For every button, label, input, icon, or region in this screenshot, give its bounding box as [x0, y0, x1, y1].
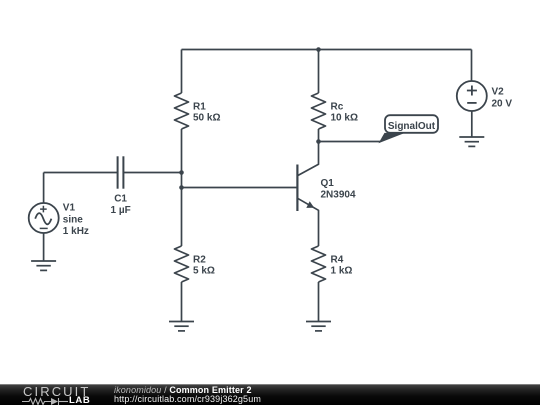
node collector junction — [316, 139, 321, 144]
svg-text:1 µF: 1 µF — [110, 205, 130, 216]
svg-text:20 V: 20 V — [492, 98, 513, 109]
wire C1 right plate to base column — [123, 172, 181, 174]
node C1 / column junction — [179, 170, 184, 175]
flag SignalOut — [379, 115, 439, 143]
capacitor C1 — [110, 156, 130, 216]
wire top supply rail — [182, 49, 472, 51]
resistor R2 — [175, 246, 215, 282]
banner text line 1 — [114, 386, 252, 395]
wire base node to Q1 base — [182, 187, 297, 189]
voltage source V2 (DC 20V) — [457, 50, 513, 138]
ground under R2 — [169, 322, 194, 331]
voltage source V1 (sine) — [29, 173, 89, 262]
wire R1 bottom to R2 top (base node column) — [181, 129, 183, 246]
svg-text:1 kHz: 1 kHz — [63, 226, 89, 237]
ground under V2 — [459, 137, 484, 146]
resistor R4 — [312, 246, 353, 282]
svg-text:Q1: Q1 — [321, 178, 335, 189]
wire R2 to ground — [181, 282, 183, 322]
transistor Q1 — [297, 142, 356, 247]
wire R4 to ground — [318, 282, 320, 322]
banner text line 2 — [114, 395, 261, 404]
svg-text:R4: R4 — [331, 254, 344, 265]
resistor Rc — [312, 50, 358, 142]
wire V1 to C1 left plate — [44, 172, 118, 174]
footer banner — [0, 384, 540, 405]
svg-text:R1: R1 — [193, 101, 206, 112]
node base wire junction — [179, 185, 184, 190]
svg-text:Rc: Rc — [331, 101, 344, 112]
svg-text:V1: V1 — [63, 202, 76, 213]
svg-text:50 kΩ: 50 kΩ — [193, 113, 220, 124]
svg-text:R2: R2 — [193, 254, 206, 265]
wire collector to SignalOut flag — [319, 141, 381, 143]
svg-text:2N3904: 2N3904 — [321, 190, 356, 201]
svg-text:5 kΩ: 5 kΩ — [193, 266, 215, 277]
resistor R1 — [175, 93, 221, 129]
svg-text:C1: C1 — [114, 194, 127, 205]
svg-text:V2: V2 — [492, 87, 505, 98]
svg-text:SignalOut: SignalOut — [388, 121, 436, 132]
svg-text:1 kΩ: 1 kΩ — [331, 266, 353, 277]
svg-text:sine: sine — [63, 214, 83, 225]
svg-text:10 kΩ: 10 kΩ — [331, 113, 358, 124]
node top rail / Rc junction — [316, 47, 321, 52]
ground under R4 — [306, 322, 331, 331]
wire rail to R1 — [181, 50, 183, 94]
ground under V1 — [31, 261, 56, 270]
logo CIRCUIT LAB — [23, 385, 90, 398]
